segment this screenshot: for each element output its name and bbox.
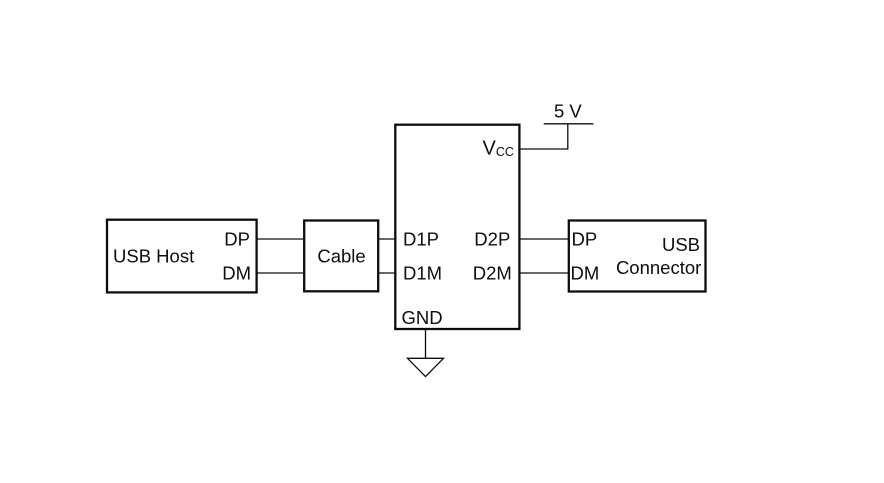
svg-text:VCC: VCC xyxy=(483,137,514,159)
svg-text:DM: DM xyxy=(222,263,251,284)
wire VCC vertical xyxy=(567,124,569,150)
svg-text:DM: DM xyxy=(571,263,600,284)
svg-text:5 V: 5 V xyxy=(554,100,582,121)
wire D1M: Cable to U1 xyxy=(378,272,395,274)
power rail 5V bar xyxy=(544,123,594,125)
svg-text:D2M: D2M xyxy=(473,263,512,284)
svg-text:D2P: D2P xyxy=(474,229,510,250)
svg-text:GND: GND xyxy=(402,307,443,328)
svg-text:USB Host: USB Host xyxy=(113,245,194,266)
wire D1P: Cable to U1 xyxy=(378,238,395,240)
IC block U1 xyxy=(395,125,519,329)
block USB Connector xyxy=(569,221,706,292)
wire VCC horizontal xyxy=(519,148,568,150)
svg-text:D1P: D1P xyxy=(403,229,439,250)
svg-text:D1M: D1M xyxy=(403,263,442,284)
wire DP: USB Host to Cable xyxy=(256,238,304,240)
wire D2M: U1 to USB Connector xyxy=(519,272,569,274)
wire D2P: U1 to USB Connector xyxy=(519,238,569,240)
svg-text:DP: DP xyxy=(224,229,250,250)
ground symbol xyxy=(408,358,444,376)
svg-text:Cable: Cable xyxy=(317,245,365,266)
wire GND vertical xyxy=(425,329,427,358)
svg-text:Connector: Connector xyxy=(616,257,701,278)
svg-text:DP: DP xyxy=(572,229,598,250)
block Cable xyxy=(304,221,378,292)
wire DM: USB Host to Cable xyxy=(256,272,304,274)
block USB Host xyxy=(107,220,257,293)
svg-text:USB: USB xyxy=(662,234,700,255)
